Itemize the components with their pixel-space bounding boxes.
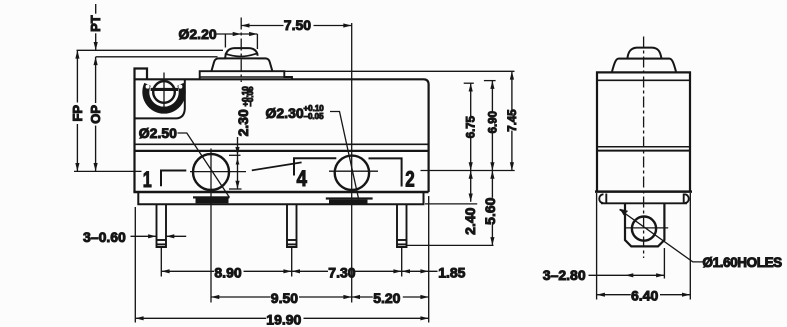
left solder tab bar <box>193 196 229 198</box>
dimension 2.30 ticks <box>229 154 241 156</box>
OP level line <box>96 56 218 58</box>
pivot bushing circle <box>153 81 175 103</box>
pivot clip left curl notch <box>146 85 150 89</box>
housing seam lines (front view) <box>135 143 429 145</box>
pin tip extension line (right) <box>407 244 494 246</box>
terminal slot 4 outline <box>294 158 336 175</box>
pivot vertical centerline <box>163 73 165 109</box>
FP dimension line <box>76 50 78 102</box>
dimension 7.30 <box>292 270 328 272</box>
hole 1 circle (O2.50) <box>193 154 229 190</box>
side view terminal hole (O1.60) <box>632 217 656 241</box>
svg-text:6.75: 6.75 <box>466 115 478 138</box>
svg-text:Ø2.20: Ø2.20 <box>179 26 217 42</box>
svg-text:OP: OP <box>88 105 103 124</box>
svg-text:Ø1.60HOLES: Ø1.60HOLES <box>703 255 783 270</box>
dimension 19.90 <box>135 317 266 319</box>
hole centerline extension (left) <box>74 170 142 172</box>
internal upper-left block outline <box>135 79 185 118</box>
hole 1 horizontal centerline <box>190 171 246 173</box>
bottom extension line body-left <box>134 207 136 323</box>
side view terminal blade <box>625 203 664 246</box>
side view vertical centerline <box>643 37 645 259</box>
side view body outline <box>595 72 692 191</box>
side view seam lines <box>597 146 690 148</box>
top plate (front view) <box>200 71 292 79</box>
tick for 6.90 <box>484 80 496 82</box>
top plate extension line (right) <box>285 70 515 72</box>
dimension 7.45 <box>511 71 513 110</box>
dimension 7.50 line <box>241 25 351 27</box>
bottom extension line pin4 <box>291 248 293 277</box>
switch body outline (front view) <box>133 69 428 193</box>
side view plunger dome <box>627 48 661 59</box>
side view left extension line <box>596 193 598 300</box>
svg-text:2: 2 <box>405 167 415 192</box>
hole 2 vertical centerline <box>351 23 353 303</box>
svg-text:7.30: 7.30 <box>328 264 355 280</box>
dimension 8.90 <box>161 270 214 272</box>
svg-text:1: 1 <box>143 167 152 192</box>
svg-text:FP: FP <box>70 105 85 122</box>
terminal pin 2 (front view) <box>397 204 407 247</box>
hole 1 vertical centerline <box>210 149 212 303</box>
O2.30 leader <box>330 112 359 200</box>
svg-text:–0.05: –0.05 <box>246 86 255 107</box>
side view base plate <box>599 194 688 204</box>
dimension 1.85 <box>402 270 438 272</box>
plunger vertical centerline <box>240 18 242 83</box>
side view terminal right extension line <box>663 248 665 279</box>
dimension 3-0.60 lines <box>131 235 157 237</box>
base bottom extension line (right) <box>425 203 477 205</box>
dimension O2.20 extension lines <box>224 34 226 48</box>
svg-text:5.20: 5.20 <box>373 290 400 306</box>
svg-text:PT: PT <box>88 15 103 32</box>
svg-text:6.40: 6.40 <box>631 287 658 303</box>
hole 2 circle (O2.30) <box>335 156 369 190</box>
terminal pin 4 (front view) <box>287 204 297 247</box>
hole centerline extension (right) <box>421 170 515 172</box>
FP level line <box>77 49 224 51</box>
dimension O2.20 line <box>216 33 258 35</box>
svg-text:Ø2.30: Ø2.30 <box>266 105 304 121</box>
svg-text:3–0.60: 3–0.60 <box>83 229 126 245</box>
OP dimension line <box>95 57 97 103</box>
dimension 5.20 <box>352 296 373 298</box>
svg-text:2.30: 2.30 <box>235 109 251 136</box>
pivot retaining clip (U shape) <box>146 84 182 110</box>
bottom extension line pin2 <box>401 248 403 277</box>
svg-text:7.45: 7.45 <box>507 109 519 132</box>
svg-text:6.90: 6.90 <box>487 111 499 133</box>
terminal pin 1 (front view) <box>157 204 167 247</box>
terminal slot 1 outline <box>161 171 186 187</box>
svg-text:19.90: 19.90 <box>266 311 301 327</box>
pivot clip right curl notch <box>178 85 182 89</box>
dimension 6.75 <box>470 83 472 117</box>
plunger pedestal (front view) <box>212 58 273 71</box>
svg-text:2.40: 2.40 <box>462 207 478 234</box>
O1.60HOLES leader <box>620 210 704 262</box>
svg-text:5.60: 5.60 <box>482 197 498 224</box>
side view top inner line <box>597 79 690 81</box>
right solder tab bar <box>326 197 373 199</box>
svg-text:–0.05: –0.05 <box>304 112 325 121</box>
dimension 2.30 vertical line <box>237 137 239 189</box>
side view right extension line <box>689 193 691 300</box>
dimension 6.90 <box>491 81 493 113</box>
svg-text:4: 4 <box>297 166 308 191</box>
base plate (front view) <box>138 192 423 204</box>
svg-text:8.90: 8.90 <box>214 264 241 280</box>
svg-text:7.50: 7.50 <box>284 17 311 33</box>
bottom extension line pin1 <box>160 248 162 277</box>
dimension 5.60 <box>491 171 493 198</box>
PT dimension line <box>95 4 97 14</box>
dimension 2.40 <box>470 171 472 202</box>
tick for 6.75 <box>464 82 474 84</box>
svg-text:3–2.80: 3–2.80 <box>543 267 586 283</box>
dimension 3-2.80 line <box>589 274 665 276</box>
bottom extension line body-right <box>428 196 430 323</box>
terminal slot 2 outline <box>369 158 402 186</box>
hole 2 horizontal centerline <box>329 170 378 172</box>
plunger pedestal top edge segments <box>219 57 266 59</box>
dimension 9.50 <box>211 296 271 298</box>
side view hole horizontal centerline <box>625 227 669 229</box>
svg-text:9.50: 9.50 <box>271 290 298 306</box>
side view plunger lower tier <box>612 59 676 73</box>
svg-text:1.85: 1.85 <box>438 264 465 280</box>
dimension 6.40 <box>597 294 631 296</box>
plunger dome (front view) <box>225 48 258 58</box>
plunger collar arc (front view) <box>225 53 258 57</box>
pivot slot bar <box>151 88 178 91</box>
contact arm diagonal <box>252 162 302 170</box>
O2.50 leader <box>178 133 230 198</box>
svg-text:Ø2.50: Ø2.50 <box>139 125 177 141</box>
